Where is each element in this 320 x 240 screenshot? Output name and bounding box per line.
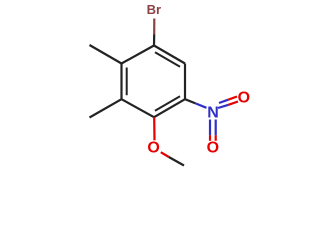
svg-text:O: O [207, 140, 219, 157]
N=O lower double bond line 2: blue half [215, 120, 217, 136]
N=O upper double bond line 2: blue half [218, 105, 229, 108]
C3-N bond, carbon half [185, 99, 196, 103]
N=O lower double bond line 2: red half [215, 135, 217, 141]
benzene ring edge C4-C5 (bottom-left) [122, 99, 155, 117]
svg-text:O: O [238, 90, 250, 107]
svg-text:N: N [207, 105, 219, 122]
benzene ring edge C2-C3 (right side) [184, 64, 186, 100]
C1-Br bond, Br half (maroon) [153, 19, 155, 35]
benzene ring edge C1-C2 (top to top-right) [154, 46, 185, 64]
methyl substituent on C6 (upper left) [90, 45, 122, 64]
benzene ring edge C3-C4 (bottom-right) [154, 99, 185, 117]
N=O upper double bond line 1: red half [228, 97, 237, 100]
C3-N bond, N half (blue) [196, 103, 207, 107]
aromatic inner double bond C1=C2 [155, 52, 180, 66]
benzene ring edge C6-C1 (top-left) [122, 46, 155, 64]
N=O upper double bond line 1: blue half [219, 100, 228, 103]
aromatic inner double bond C5=C6 [126, 68, 128, 96]
N=O lower double bond line 1: blue half [209, 120, 211, 136]
N=O lower double bond line 1: red half [209, 135, 211, 141]
C4-O methoxy bond (red) [153, 117, 156, 140]
N=O upper double bond line 2: red half [229, 102, 239, 105]
O-CH3 bond, methyl half [169, 157, 184, 166]
svg-text:O: O [147, 140, 159, 157]
O-CH3 bond, O half (red) [161, 152, 169, 157]
svg-text:Br: Br [147, 2, 161, 17]
C1-Br bond, carbon half [153, 35, 155, 46]
methyl substituent on C5 (lower left) [90, 99, 122, 117]
benzene ring edge C5-C6 (left side) [120, 64, 122, 100]
aromatic inner double bond C3=C4 [155, 96, 180, 110]
